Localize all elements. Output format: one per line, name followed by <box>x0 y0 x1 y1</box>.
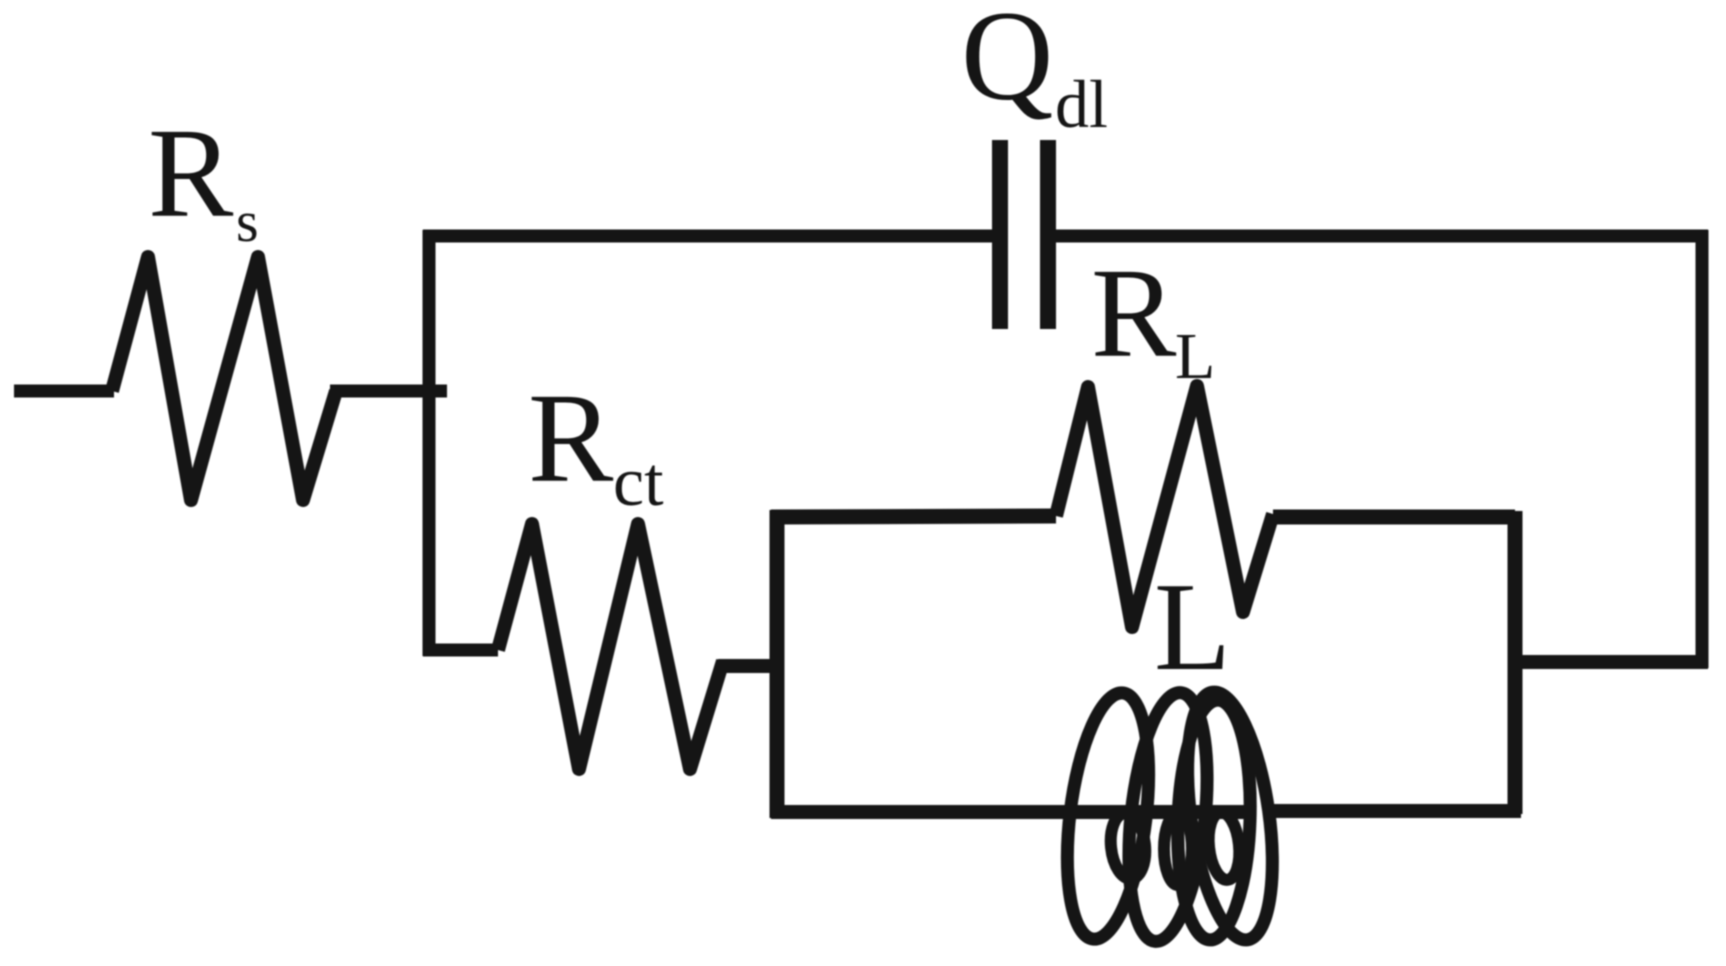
inductor L small return loop 3 <box>1206 811 1243 882</box>
wire: top rail right segment from Qdl to right rail <box>1056 230 1708 243</box>
wire: right vertical rail of outer loop <box>1696 230 1709 668</box>
inductor L small return loop 1 <box>1108 811 1149 880</box>
resistor R_ct <box>498 524 723 769</box>
label L (inductor) <box>1154 565 1231 691</box>
wire: Rs output to node A <box>330 385 447 398</box>
wire: Rct to inner box left rail <box>718 659 783 673</box>
inner box bottom edge right segment after coil gap <box>1266 804 1521 818</box>
inner box top edge left segment <box>771 516 1056 517</box>
capacitor Q_dl left plate <box>992 140 1008 329</box>
capacitor Q_dl right plate <box>1040 140 1056 329</box>
resistor R_s <box>112 257 336 500</box>
wire: inner box right rail to outer right rail <box>1509 655 1708 669</box>
inner box left vertical rail <box>770 510 785 818</box>
label R_s <box>148 109 233 237</box>
inductor L coil turn 1 <box>1055 688 1161 943</box>
inner box top edge right segment <box>1273 510 1515 525</box>
inductor L coil turn 4 <box>1174 699 1254 941</box>
wire: bottom rail from node A to Rct <box>423 644 498 657</box>
label R_ct <box>528 374 613 502</box>
inner box right vertical rail <box>1508 511 1523 814</box>
inductor L coil turn 2 <box>1118 689 1218 945</box>
wire: left input lead <box>14 385 114 398</box>
inner box bottom edge left segment (through coil) <box>771 805 1248 819</box>
inductor L small return loop 2 <box>1164 813 1192 885</box>
node A: left vertical rail of outer parallel loop <box>423 230 436 656</box>
inductor L coil turn 3 <box>1174 687 1286 945</box>
label R_L <box>1091 249 1176 377</box>
wire: top rail left segment to Qdl <box>423 230 994 243</box>
resistor R_L <box>1056 386 1273 627</box>
label Q_dl <box>961 0 1053 120</box>
